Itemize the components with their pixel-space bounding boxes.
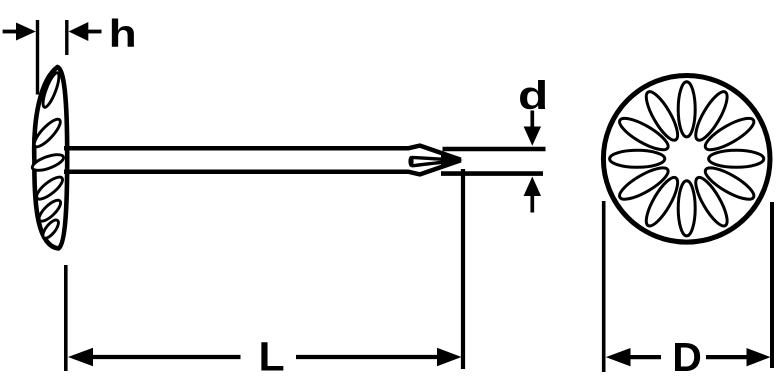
nail point ridge line top (412, 157, 462, 160)
head petal 2 (side view) (31, 116, 64, 150)
L dimension line with arrows (68, 348, 462, 366)
head petal 4 (side view) (34, 174, 66, 203)
petal 2 o'clock (701, 113, 757, 155)
petal 1 o'clock (690, 88, 732, 144)
nail point outline top (408, 146, 461, 160)
L extension line left (64, 265, 68, 371)
nail head side view (umbrella dome outline) (34, 67, 67, 249)
petal 10 o'clock (616, 113, 672, 155)
d extension line bottom (441, 171, 543, 176)
nail point cleft bump (408, 156, 413, 167)
shank top edge (64, 146, 409, 151)
head petal 3 (middle, side view) (30, 151, 65, 173)
svg-text:h: h (109, 13, 137, 57)
h extension line left (36, 20, 39, 95)
top view petals (12 radial) (610, 82, 764, 236)
D extension line left (602, 201, 606, 372)
petal 9 o'clock (610, 150, 665, 167)
shank bottom edge (64, 170, 409, 175)
h extension line right (65, 20, 68, 55)
head petal 1 (top, side view) (40, 71, 62, 109)
nail point outline bottom (408, 160, 461, 174)
petal 8 o'clock (616, 162, 672, 204)
petal 6 o'clock (678, 181, 695, 236)
L extension line right (below nail tip) (461, 169, 465, 369)
svg-text:L: L (259, 333, 285, 379)
svg-text:D: D (672, 334, 702, 380)
h arrow left (pointing right) (3, 23, 36, 41)
petal 5 o'clock (690, 174, 732, 230)
nail point ridge line bottom (412, 160, 462, 165)
petal 12 o'clock (678, 82, 695, 137)
petal 7 o'clock (641, 174, 683, 230)
D extension line right (770, 202, 774, 368)
d arrow up (524, 177, 541, 213)
head top view outer circle (603, 76, 770, 243)
d arrow down (524, 111, 541, 146)
head petal 6 (bottom, side view) (40, 218, 61, 241)
D dimension line with arrows (606, 348, 771, 366)
petal 11 o'clock (641, 88, 683, 144)
petal 4 o'clock (701, 162, 757, 204)
nail point filled tip (441, 154, 463, 165)
petal 3 o'clock (709, 150, 764, 167)
head petal 5 (side view) (36, 197, 64, 224)
h arrow right (pointing left) (69, 22, 102, 41)
d extension line top (443, 147, 546, 151)
